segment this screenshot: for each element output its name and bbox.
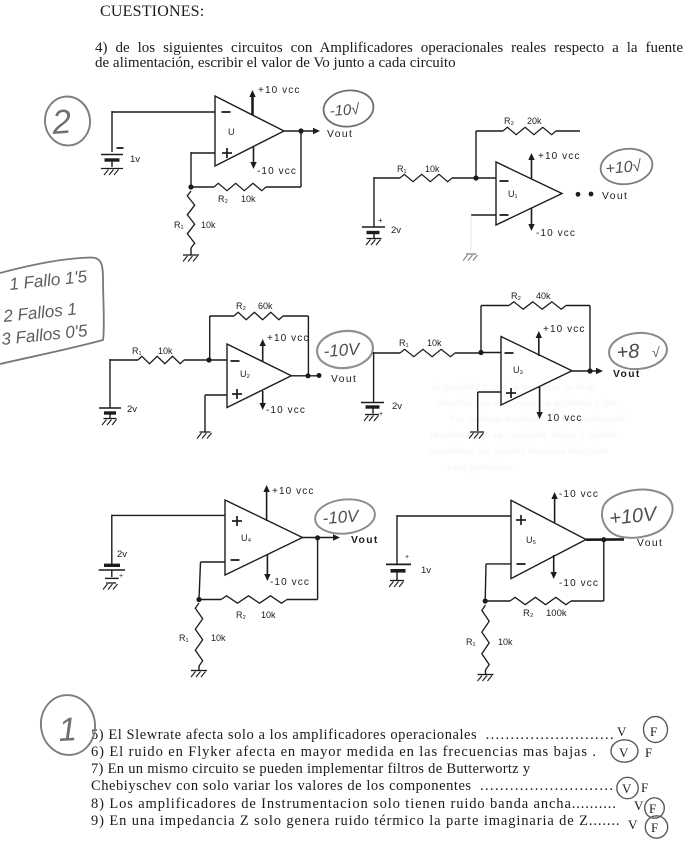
U1 non-inverting input pin	[500, 214, 509, 216]
wire: battery to U5 non-inverting input	[397, 515, 511, 564]
svg-text:+: +	[378, 216, 383, 225]
problem 4 statement line 1	[95, 40, 683, 57]
handwritten answer +10V for circuit 2	[598, 146, 654, 188]
svg-text:10k: 10k	[201, 220, 216, 230]
svg-text:Vout: Vout	[637, 538, 663, 549]
node: inverting input junction	[206, 357, 227, 362]
resistor R2 100k (feedback)	[485, 597, 604, 604]
+10 vcc supply arrow	[260, 339, 266, 361]
circle around F (question 9)	[645, 816, 667, 838]
node: inverting input junction	[478, 350, 501, 355]
wire: non-inverting input to ground	[471, 215, 496, 251]
svg-text:+10 vcc: +10 vcc	[258, 85, 300, 96]
ground at U3 non-inverting input	[469, 432, 484, 439]
resistor R2 60k (feedback)	[210, 312, 309, 360]
handwritten answer -10V for circuit 3	[315, 328, 375, 371]
battery V3 2v	[99, 408, 121, 418]
svg-text:40k: 40k	[536, 291, 551, 301]
question line 2	[91, 761, 530, 778]
R2 value label	[504, 116, 542, 126]
ground below V6	[389, 581, 404, 588]
svg-text:V: V	[619, 745, 629, 760]
handwritten circled number 2	[43, 94, 93, 147]
wire: output down to feedback	[603, 540, 605, 601]
R2 value label	[236, 301, 273, 311]
R1 value label	[179, 633, 226, 643]
U5 non-inverting input pin	[516, 515, 526, 525]
svg-text:R₂: R₂	[236, 610, 246, 620]
svg-text:lo paralelo y que la ganancia: lo paralelo y que la ganancia se disp	[432, 382, 595, 393]
R2 value label	[236, 610, 276, 620]
resistor R2 40k (feedback)	[481, 302, 590, 353]
question line 1	[91, 744, 597, 761]
question 7 answer letters V F	[622, 780, 648, 796]
svg-text:R₁: R₁	[399, 338, 409, 348]
battery V1 1v	[101, 148, 124, 167]
node: feedback junction	[196, 597, 201, 602]
svg-text:U₅: U₅	[526, 535, 536, 545]
battery V4 2v	[361, 403, 384, 419]
svg-text:resolveremos en cualquier altu: resolveremos en cualquier altura y elimi…	[430, 430, 617, 441]
svg-text:+10 vcc: +10 vcc	[538, 151, 580, 162]
svg-text:Vout: Vout	[331, 374, 357, 385]
svg-text:2v: 2v	[117, 549, 127, 560]
svg-text:R₂: R₂	[236, 301, 246, 311]
wire: output node down to feedback	[300, 131, 302, 187]
svg-text:Vout: Vout	[602, 191, 628, 202]
svg-text:√: √	[652, 344, 660, 360]
svg-text:10k: 10k	[261, 610, 276, 620]
+10 vcc supply arrow	[263, 485, 269, 521]
svg-text:R₂: R₂	[504, 116, 514, 126]
circle around V (question 7)	[617, 777, 638, 798]
+10 vcc label	[267, 333, 309, 344]
node: feedback junction	[188, 184, 193, 189]
svg-text:+10 vcc: +10 vcc	[272, 486, 314, 497]
resistor R1 10k	[400, 174, 476, 181]
U5 inverting input pin	[517, 563, 526, 565]
U3 non-inverting input pin	[506, 388, 516, 398]
ground below V1	[101, 169, 123, 176]
Vout label	[331, 374, 357, 385]
Vout label	[602, 191, 628, 202]
svg-text:60k: 60k	[258, 301, 273, 311]
Vout label	[613, 369, 641, 380]
svg-text:R₂: R₂	[218, 194, 228, 204]
svg-text:3 Fallos 0'5: 3 Fallos 0'5	[0, 321, 88, 349]
R1 value label	[174, 220, 216, 230]
+10 vcc supply arrow	[536, 331, 542, 356]
wire: feedback node to U5 inverting input	[485, 564, 511, 601]
U1 inverting input pin	[500, 180, 509, 182]
question line 0	[91, 727, 615, 744]
svg-text:caso parecidas: caso parecidas	[447, 462, 512, 473]
wire: non-inverting input to ground	[478, 392, 501, 431]
svg-text:+10 vcc: +10 vcc	[543, 324, 585, 335]
wire: battery to R1	[374, 177, 400, 227]
svg-text:1: 1	[57, 710, 77, 748]
op-amp U3	[501, 337, 572, 406]
-10 vcc top label	[559, 489, 599, 500]
svg-text:R₁: R₁	[179, 633, 189, 643]
svg-text:R₁: R₁	[397, 164, 407, 174]
value label 1v	[421, 565, 431, 576]
handwritten answer +8 V for circuit 4	[608, 331, 669, 372]
+10 vcc label	[272, 486, 314, 497]
svg-text:10k: 10k	[241, 194, 256, 204]
wire: U1 output with junction node	[284, 128, 320, 134]
U1 non-inverting input pin	[222, 148, 232, 158]
svg-text:20k: 20k	[527, 116, 542, 126]
ground below V3	[102, 419, 117, 426]
-10 vcc supply arrow	[260, 391, 266, 410]
resistor R1 10k	[138, 356, 209, 363]
svg-text:F: F	[645, 745, 652, 760]
wire: battery to R1	[374, 352, 400, 403]
problem 4 statement line 2	[95, 55, 456, 72]
svg-text:-10√: -10√	[329, 101, 361, 120]
+10 vcc label	[258, 85, 300, 96]
wire: battery to R1	[110, 359, 138, 408]
svg-text:10k: 10k	[427, 338, 442, 348]
svg-text:Vout: Vout	[613, 369, 641, 380]
R2 value label	[523, 608, 567, 619]
svg-text:F: F	[649, 801, 656, 816]
resistor R2 10k (feedback)	[199, 596, 318, 603]
+10 vcc label	[538, 151, 580, 162]
question line 4	[91, 796, 617, 813]
wire: feedback node to U1 non-inverting input	[191, 152, 215, 187]
svg-text:Vout: Vout	[351, 535, 379, 546]
question 6 answer letters V F	[619, 745, 652, 760]
svg-text:2v: 2v	[391, 225, 401, 236]
svg-text:2v: 2v	[392, 401, 402, 412]
svg-text:V: V	[634, 798, 644, 813]
question 5 answer letters V F	[617, 724, 657, 739]
svg-text:Vcc realizar montajes de los p: Vcc realizar montajes de los portapapel	[448, 414, 626, 425]
svg-text:+: +	[405, 554, 409, 561]
svg-text:1v: 1v	[130, 154, 140, 165]
svg-text:U₁: U₁	[508, 189, 518, 199]
R1 value label	[397, 164, 440, 174]
svg-text:1 Fallo 1'5: 1 Fallo 1'5	[8, 267, 88, 294]
svg-text:-10 vcc: -10 vcc	[536, 228, 576, 239]
Vout label	[351, 535, 379, 546]
op-amp U1 (circuit 2)	[496, 162, 562, 225]
wire: feedback down to output node	[589, 306, 591, 372]
svg-text:V: V	[628, 817, 638, 832]
output nodes of U1	[576, 192, 594, 197]
battery V6 1v	[386, 554, 411, 580]
Vout label	[637, 538, 663, 549]
value label 1v	[130, 154, 140, 165]
+10 vcc supply arrow	[528, 153, 534, 179]
svg-text:10k: 10k	[498, 637, 513, 647]
R2 value label	[511, 291, 551, 301]
-10 vcc supply arrow	[528, 208, 534, 231]
handwritten note line 3: 3 Fallos 0'5	[0, 321, 88, 349]
question 9 answer letters V F	[628, 817, 658, 835]
handwritten grading note box	[0, 258, 104, 365]
svg-text:+10√: +10√	[605, 158, 642, 178]
ground below R1	[183, 248, 199, 262]
svg-text:U: U	[228, 127, 235, 137]
svg-text:-10 vcc: -10 vcc	[559, 578, 599, 589]
svg-text:F: F	[651, 820, 658, 835]
value label 2v	[117, 549, 127, 560]
question line 3	[91, 778, 614, 795]
op-amp U5	[511, 500, 586, 578]
question line 5	[91, 813, 620, 830]
resistor R1 10k	[400, 349, 481, 356]
+10 vcc supply arrow	[249, 90, 255, 115]
svg-text:amplificado se tomara un archi: amplificado se tomara un archivos y des	[437, 398, 618, 409]
ground at U2 non-inverting input	[197, 432, 212, 439]
op-amp U2	[227, 344, 291, 408]
wire: U5 output with junction node	[586, 537, 624, 542]
svg-text:Vout: Vout	[327, 129, 353, 140]
-10 vcc label	[257, 166, 297, 177]
U4 inverting input pin	[231, 559, 240, 561]
svg-text:R₁: R₁	[174, 220, 184, 230]
svg-text:-10V: -10V	[322, 506, 361, 528]
value label 2v	[391, 225, 401, 236]
Vout label	[327, 129, 353, 140]
wire: feedback node to U4 inverting input	[199, 562, 225, 600]
svg-text:10k: 10k	[211, 633, 226, 643]
svg-text:+8: +8	[616, 340, 640, 364]
svg-text:-10V: -10V	[323, 339, 362, 361]
wire: output down to feedback	[317, 538, 319, 600]
U1 inverting input pin	[222, 111, 231, 113]
ground below V5	[103, 583, 118, 590]
handwritten note line 1: 1 Fallo 1'5	[8, 267, 88, 294]
question 8 answer letters V F	[634, 798, 656, 816]
wire: U3 output with junction node	[572, 368, 603, 374]
svg-text:U₃: U₃	[513, 365, 523, 375]
ground at U1 non-inverting input	[463, 254, 478, 261]
-10 vcc supply arrow	[551, 555, 557, 579]
-10 vcc label	[536, 228, 576, 239]
svg-text:R₁: R₁	[466, 637, 476, 647]
svg-text:2: 2	[50, 103, 73, 142]
svg-text:-10 vcc: -10 vcc	[266, 405, 306, 416]
svg-text:-10 vcc: -10 vcc	[270, 577, 310, 588]
resistor R1 10k (to ground)	[187, 191, 194, 248]
svg-text:V: V	[622, 781, 632, 796]
heading CUESTIONES	[100, 3, 204, 21]
wire: U4 output with junction node	[303, 534, 341, 540]
wire: battery to U4 non-inverting input	[112, 515, 225, 566]
handwritten answer -10V for circuit 1	[321, 88, 375, 130]
svg-text:2 Fallos 1: 2 Fallos 1	[1, 299, 77, 326]
faint bleed-through	[428, 382, 626, 473]
10 vcc label	[547, 413, 583, 424]
output nodes of U2	[291, 373, 321, 378]
svg-text:-10 vcc: -10 vcc	[559, 489, 599, 500]
svg-text:U₄: U₄	[241, 533, 251, 543]
svg-text:10k: 10k	[158, 346, 173, 356]
wire: non-inverting input to ground	[205, 395, 227, 432]
+10 vcc label	[543, 324, 585, 335]
-10 vcc supply arrow	[264, 554, 270, 581]
handwritten circled number 1	[37, 692, 99, 759]
R1 value label	[399, 338, 442, 348]
ground below V2	[366, 239, 382, 246]
svg-text:+10V: +10V	[608, 503, 659, 530]
circle around F (question 5)	[644, 717, 668, 743]
svg-text:F: F	[650, 724, 657, 739]
-10 vcc label	[270, 577, 310, 588]
U2 non-inverting input pin	[232, 389, 242, 399]
value label 2v	[127, 404, 137, 415]
resistor R2 10k (feedback)	[191, 183, 301, 190]
+10 vcc supply arrow (printed -10 vcc)	[551, 492, 557, 523]
svg-text:R₂: R₂	[523, 608, 534, 619]
svg-text:100k: 100k	[546, 608, 567, 619]
svg-text:R₂: R₂	[511, 291, 521, 301]
svg-text:+10 vcc: +10 vcc	[267, 333, 309, 344]
svg-text:10k: 10k	[425, 164, 440, 174]
10 vcc supply arrow (negative rail)	[536, 387, 542, 419]
handwritten answer -10V for circuit 5	[313, 496, 376, 536]
U4 non-inverting input pin	[232, 516, 242, 526]
resistor R1 10k (to ground)	[195, 603, 202, 666]
ground below R1	[191, 666, 207, 677]
battery V2 2v	[362, 216, 385, 238]
wire: feedback down to output node	[307, 316, 309, 376]
battery V5 2v	[99, 565, 125, 580]
wire: source to U1 inverting input	[112, 111, 215, 152]
svg-text:+: +	[379, 411, 383, 418]
-10 vcc label	[266, 405, 306, 416]
U3 inverting input pin	[505, 352, 514, 354]
svg-text:1v: 1v	[421, 565, 431, 576]
resistor R2 20k (feedback)	[476, 127, 580, 178]
resistor R1 10k (to ground)	[482, 605, 489, 670]
svg-text:U₂: U₂	[240, 369, 250, 379]
circle around F (question 8)	[645, 798, 665, 818]
ground below R1	[478, 670, 494, 681]
svg-text:R₁: R₁	[132, 346, 142, 356]
svg-text:F: F	[641, 780, 648, 795]
node: feedback junction	[483, 598, 488, 603]
handwritten answer +10V for circuit 6	[602, 490, 673, 538]
circle around V (question 6)	[611, 740, 638, 762]
U2 inverting input pin	[231, 360, 240, 362]
value label 2v	[392, 401, 402, 412]
svg-text:considerar las señales excitad: considerar las señales excitada directam	[428, 446, 608, 457]
svg-text:+: +	[119, 573, 123, 580]
R2 value label	[218, 194, 256, 204]
svg-text:V: V	[617, 724, 627, 739]
svg-text:2v: 2v	[127, 404, 137, 415]
-10 vcc supply arrow	[250, 147, 256, 169]
op-amp U4	[225, 500, 303, 575]
R1 value label	[132, 346, 173, 356]
op-amp U1	[215, 96, 284, 166]
R1 value label	[466, 637, 513, 647]
svg-text:-10 vcc: -10 vcc	[257, 166, 297, 177]
-10 vcc bottom label	[559, 578, 599, 589]
handwritten note line 2: 2 Fallos 1	[1, 299, 77, 326]
ground below V4	[364, 415, 379, 422]
node: inverting input junction	[473, 175, 496, 180]
